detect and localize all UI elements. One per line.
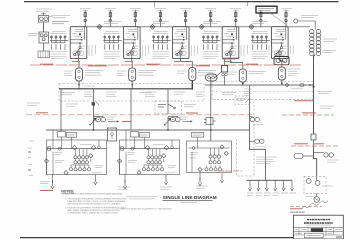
text: side note — [118, 208, 172, 210]
fuse F8 — [258, 10, 263, 27]
label: transfer note — [184, 105, 196, 107]
svg-text:OTHERWISE. FIELD VERIFY ALL CO: OTHERWISE. FIELD VERIFY ALL CONNECTIONS. — [68, 211, 119, 214]
breaker cubicle 52-3 — [172, 27, 189, 59]
ground lead G3 — [123, 175, 126, 190]
node: feeder junction j0 — [60, 129, 62, 131]
station transformer TS — [39, 32, 49, 43]
label: 480V red tag mid2 — [186, 112, 198, 114]
wire: unit2 box to T2 — [131, 59, 133, 66]
wire: feeder drop to MCC3 — [210, 77, 212, 141]
label: red under-box tag u2 — [125, 61, 133, 63]
node: bus B end arrow — [309, 84, 311, 86]
starter pair S4 — [250, 117, 260, 122]
label: unit4 feeder name column — [241, 45, 248, 56]
label: unit C incoming note — [153, 22, 169, 24]
label: 480V red tag left — [36, 112, 48, 114]
label: left margin rows — [27, 103, 40, 105]
starter S2 arrow — [164, 118, 171, 125]
label: spare right note — [318, 92, 332, 94]
fuse F6 — [208, 10, 213, 27]
node: T2 bus arrow — [131, 84, 133, 86]
border: top frame line — [24, 1, 339, 3]
node: feeder junction j3 — [210, 129, 212, 131]
starter S1 column — [92, 89, 94, 130]
breaker cubicle 52-4 — [222, 27, 239, 59]
fused switch FS4 — [222, 59, 228, 85]
label: bus A note mid — [139, 92, 152, 94]
label: unit5 heading — [253, 31, 267, 33]
elevator starter pair S3 — [250, 139, 264, 143]
node: T1 bus arrow — [78, 84, 80, 86]
elevator pair EP — [314, 153, 334, 158]
wire: T2 secondary drop — [131, 81, 133, 89]
enclosure: dashed riser right — [237, 101, 255, 176]
CT metering row unit 1 — [50, 34, 69, 59]
label: T2 left ticks — [117, 71, 126, 75]
enclosure: auto transfer dashed box — [155, 101, 182, 114]
label: unit E incoming note — [252, 22, 268, 24]
label: unit3 heading — [154, 31, 168, 33]
label: under-ground tag C — [196, 186, 208, 188]
wire: incoming drop — [43, 23, 45, 33]
wire: T1 secondary drop — [78, 81, 80, 89]
wire: MCC feeder tie line — [46, 129, 250, 131]
label: swgr cell text 1 — [84, 86, 95, 96]
fuse F7 — [233, 10, 238, 27]
node: feeder junction j1 — [93, 129, 95, 131]
wire: distribution header — [247, 179, 293, 181]
label: under bus2 row — [291, 88, 303, 90]
svg-text:1. ALL CONDUIT AND WIRE SIZES: 1. ALL CONDUIT AND WIRE SIZES SHOWN ARE … — [63, 193, 123, 196]
transformer T2 — [129, 66, 136, 84]
label: under-ground tag B — [160, 187, 172, 189]
net: emergency red dashed right — [291, 145, 338, 147]
enclosure: 480V switchgear A (dashed) — [59, 84, 204, 102]
wire: feeder drop to MCC2 — [130, 89, 132, 130]
svg-text:SINGLE LINE DIAGRAM: SINGLE LINE DIAGRAM — [163, 195, 217, 200]
motor control center MCC-C — [187, 132, 232, 172]
feeder tap FT2 — [257, 180, 260, 191]
label: T1 left ticks — [64, 71, 73, 75]
label: unit A incoming note — [52, 22, 68, 24]
feeder tap FT1 — [249, 180, 252, 191]
roof fan motor M2 — [315, 176, 320, 185]
roof fan motor M1 — [306, 179, 311, 184]
small transformer TX mid — [204, 118, 216, 125]
starter pair S1 — [93, 116, 105, 121]
label: red bus tag 2 — [88, 65, 107, 67]
label: under-ground tag A — [118, 187, 130, 189]
wire: unit5 box to T5 — [280, 59, 282, 65]
wire: T4 secondary drop — [242, 82, 244, 85]
label: S1 red destination tag — [122, 121, 131, 123]
node: bus B right junction — [313, 86, 315, 88]
label: MCC-C right rows — [256, 157, 277, 164]
label: incoming feeder note — [36, 9, 52, 11]
CT metering row unit 4 — [202, 34, 221, 59]
wire: spare box leader — [270, 13, 288, 26]
label: MCC D-2 red tag — [290, 208, 302, 210]
fuse F3 — [133, 10, 138, 27]
label: starter S2 tag — [180, 117, 188, 119]
ground lead G5 — [198, 173, 201, 187]
wire: T3 secondary drop — [191, 81, 193, 90]
neutral grounding resistor NGR — [38, 51, 50, 58]
disconnect DS right — [294, 154, 314, 159]
transformer T4 — [239, 67, 246, 85]
label: red tag far right — [302, 112, 316, 114]
label: candle tags — [80, 7, 292, 9]
label: starter S1 tag — [107, 117, 115, 119]
ground lead G6 — [221, 174, 224, 183]
label: unit1 feeder name column — [89, 45, 96, 56]
wire: chain bottom stub — [314, 55, 316, 57]
node: bus tie diamond 4 — [249, 24, 254, 29]
tie breaker cubicle between MCC-A/B — [108, 128, 117, 141]
CT metering row unit 2 — [103, 34, 122, 59]
transformer T1 — [76, 66, 83, 84]
right riser breaker RB — [311, 134, 316, 146]
net: red dashed segment right of MCC-C — [282, 114, 334, 116]
label: note beside para1 — [126, 197, 158, 199]
label: ground note — [40, 182, 50, 184]
oval device on bus B — [206, 74, 218, 81]
label: 4160V tap note — [322, 39, 337, 53]
label: red tag right2 — [313, 143, 324, 145]
node: bus tie diamond 3 — [199, 24, 204, 29]
wire: unit1 box to T1 — [78, 59, 81, 66]
text: notes body — [63, 193, 127, 215]
label: switch nameplate lines — [49, 16, 70, 24]
feeder tap FT5 — [282, 180, 285, 191]
net: MCC D-2 red dashed — [290, 206, 322, 208]
wire: right riser lower — [314, 146, 317, 176]
label: S3 tag — [255, 147, 266, 149]
enclosure: emergency ATS dashed box — [235, 96, 251, 105]
node: bus B diamond — [285, 83, 289, 87]
fuse F2 — [108, 10, 113, 27]
fuse F4 — [158, 10, 163, 27]
wire: T5 secondary drop — [281, 80, 283, 86]
label: swgr cell text 2 — [106, 92, 117, 96]
label: right cluster rows — [306, 160, 339, 197]
spare feeder box (top right, bold) — [256, 6, 277, 13]
transformer T5 — [278, 65, 285, 83]
motor control center MCC-B — [117, 130, 179, 175]
wire: 480V bus A — [59, 88, 193, 90]
text: drawing title — [163, 195, 217, 202]
label: swgr cell text 3 — [145, 92, 156, 96]
label: emergency ATS text — [237, 99, 246, 101]
CT metering row unit 5 — [251, 34, 269, 59]
breaker cubicle 52-1 — [70, 27, 87, 59]
border: bottom frame line — [20, 237, 294, 239]
ground lead G4 — [165, 175, 168, 185]
wire: 480V bus B — [205, 84, 314, 86]
label: red under-box tag u3 — [174, 61, 182, 63]
feeder tap FT6 — [291, 180, 294, 191]
label: unit2 feeder name column — [142, 45, 149, 56]
label: block3 red tag — [218, 170, 242, 172]
label: feeder tags row — [247, 193, 296, 195]
incoming line switch SW1 — [39, 13, 49, 23]
wire: unit4 box to T4 — [231, 59, 243, 67]
approval scribble — [302, 201, 328, 210]
breaker cubicle 52-5 — [272, 27, 289, 59]
svg-text:* DENOTES EXISTING EQUIPMENT T: * DENOTES EXISTING EQUIPMENT TO BE REUSE… — [118, 208, 172, 210]
label: switchgear A note — [62, 93, 76, 95]
label: swgr cell text 5 — [196, 92, 203, 96]
fuse F9 — [284, 10, 289, 27]
label: unit5 feeder name column — [290, 45, 293, 54]
label: top tick rev1 — [154, 2, 156, 8]
label: swgr cell text 4 — [174, 92, 185, 94]
enclosure: 480V switchgear B (dashed) — [212, 82, 313, 100]
wire: unit3 box to T3 — [181, 59, 193, 65]
node: bus tie diamond 1 — [97, 24, 102, 29]
elevator motor M3 — [314, 193, 320, 202]
label: T4 left ticks — [228, 72, 237, 74]
enclosure: roof equipment dashed — [304, 176, 326, 193]
wire: emergency feeder column — [250, 85, 266, 180]
label: spare cell rows mid — [66, 104, 78, 106]
CT metering row unit 3 — [152, 34, 171, 59]
text: record stamp — [291, 211, 306, 213]
feeder tap FT4 — [274, 180, 277, 191]
fuse F1 — [83, 10, 88, 27]
label: heat center red tag — [294, 100, 314, 102]
starter S1 arrow — [89, 118, 96, 125]
ground lead G2 — [94, 175, 97, 185]
breaker cubicle 52-2 — [124, 27, 141, 59]
label: unit3 feeder name column — [191, 45, 198, 56]
grounding transformer chain GT — [294, 19, 321, 56]
node: feeder junction j2 — [167, 129, 169, 131]
label: grounding transformer note — [301, 16, 318, 18]
label: capacitor red tag — [40, 190, 53, 192]
wire: 4160V main bus — [70, 26, 310, 28]
node: T5 bus arrow — [281, 83, 283, 85]
label: bus B note — [222, 93, 236, 95]
label: T5 right ticks — [288, 69, 300, 76]
label: T1 nameplate — [85, 71, 103, 76]
label: incoming bus note A — [104, 22, 122, 24]
fuse F5 — [183, 10, 188, 27]
wire: TS to NGR — [43, 43, 45, 51]
label: red bus tag 4 — [196, 65, 210, 67]
label: unit5 extra stub columns — [269, 45, 272, 55]
ground lead G1 — [51, 175, 54, 190]
node: bus B oval — [300, 84, 304, 87]
label: right margin rows — [320, 106, 334, 108]
motor control center MCC-A — [44, 130, 106, 175]
feeder tap FT3 — [265, 180, 268, 191]
starter S1 feed arrow — [108, 120, 119, 122]
starter S4 arrow — [246, 99, 250, 103]
label: swgr B cell text — [244, 89, 252, 96]
bus duct breaker pair BD (below unit 5) — [274, 57, 289, 65]
label: T3 nameplate — [198, 71, 216, 76]
net: 480V bus highlight (red dashed) — [26, 114, 252, 116]
net: 4160V bus highlight (red) — [30, 64, 302, 66]
label: unit2 heading — [105, 31, 119, 33]
node: bus tie diamond 2 — [150, 24, 155, 29]
label: left metering note — [28, 34, 40, 36]
wire: right riser upper — [313, 56, 315, 134]
auto transfer switch ATS — [158, 89, 180, 130]
transformer T3 — [189, 65, 196, 83]
starter S2 feed arrow — [183, 120, 193, 122]
label: T3 left ticks — [177, 71, 186, 73]
label: red bus tag 5 — [246, 63, 258, 65]
label: unit4 heading — [204, 31, 218, 33]
label: unit1 heading — [52, 31, 66, 33]
label: S4 tag — [253, 124, 263, 126]
svg-text:SETTINGS WITH THE SERVING UTIL: SETTINGS WITH THE SERVING UTILITY COMPAN… — [68, 203, 121, 206]
label: red bus tag 3 — [146, 63, 160, 65]
label: red bus tag 1 — [40, 63, 53, 65]
wire: feeder bus A left drop — [60, 89, 62, 130]
label: T4 nameplate — [249, 72, 267, 74]
label: T5 nameplate — [222, 58, 240, 60]
wire: FS4 to oval diagonal — [215, 72, 222, 79]
label: left margin dark tags — [28, 152, 31, 170]
label: top tick rev2 — [247, 2, 249, 6]
starter S1 switch mark — [92, 102, 99, 106]
label: T2 nameplate — [138, 71, 156, 76]
label: incoming bus note B — [203, 22, 221, 24]
node: T4 bus arrow — [242, 83, 244, 85]
label: red under-box tag u4 — [224, 61, 232, 63]
label: red tag right1 — [294, 143, 308, 145]
title block — [293, 215, 343, 239]
label: left margin circuit tags — [28, 141, 34, 176]
label: red under-box tag u1 — [72, 61, 80, 63]
